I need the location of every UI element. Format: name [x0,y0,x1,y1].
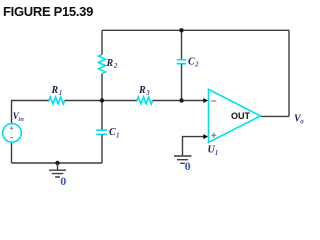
label R1 [51,85,63,97]
capacitor C2 [177,60,186,64]
op-amp minus pin mark [211,100,216,102]
wire Vin bottom [11,142,13,163]
label 0 (op-amp ground) [185,159,191,173]
wire Vin top to R1 [12,101,50,124]
svg-text:3: 3 [145,89,150,97]
junction node A [100,98,104,102]
svg-text:C: C [188,56,195,67]
svg-text:R: R [51,85,59,96]
figure title [3,4,93,19]
source Vin [3,124,22,143]
junction top node [179,28,183,32]
ground 0 (op-amp + input) [174,156,192,163]
label C1 [109,127,120,139]
wire right vertical feedback [288,30,290,116]
wire R2 to top wire [101,30,103,54]
svg-text:2: 2 [113,62,118,70]
label Vin [13,111,25,123]
svg-text:0: 0 [185,159,191,173]
resistor R1 [49,97,65,104]
junction node B [179,98,183,102]
svg-text:1: 1 [215,149,219,157]
resistor R2 [99,55,106,74]
ground 0 (bottom) [49,163,66,177]
wire top feedback [102,29,289,31]
label C2 [188,56,199,68]
resistor R3 [137,97,153,104]
label U1 [208,145,219,157]
svg-text:1: 1 [116,131,120,139]
wire top node to C2 [181,30,183,59]
wire node A down to C1 [101,101,103,130]
arrowhead noninverting input [203,134,208,139]
junction ground node [55,161,59,165]
svg-text:o: o [300,118,304,126]
label 0 (bottom ground) [60,174,66,188]
label Vo [294,113,304,125]
svg-text:C: C [109,127,116,138]
svg-text:2: 2 [194,61,199,69]
arrowhead inverting input [203,98,208,103]
label OUT [231,111,251,121]
wire R3 to op-amp inverting input [153,100,204,102]
wire node A up to R2 [101,74,103,101]
svg-text:FIGURE P15.39: FIGURE P15.39 [3,4,93,19]
svg-text:0: 0 [60,174,66,188]
label R3 [138,85,150,97]
op-amp U1 [209,89,261,142]
wire C2 to node B [181,64,183,100]
label R2 [106,58,118,70]
svg-text:in: in [18,116,24,123]
svg-text:R: R [106,58,114,69]
op-amp plus pin mark [211,133,216,138]
svg-text:R: R [138,85,146,96]
svg-text:1: 1 [59,89,63,97]
wire R1 to R3 through node A [65,100,138,102]
svg-text:OUT: OUT [231,111,251,121]
wire C1 to bottom wire [101,135,103,163]
wire op-amp output [261,115,290,117]
wire bottom [12,162,103,164]
wire op-amp + input [183,137,205,156]
capacitor C1 [96,130,107,134]
